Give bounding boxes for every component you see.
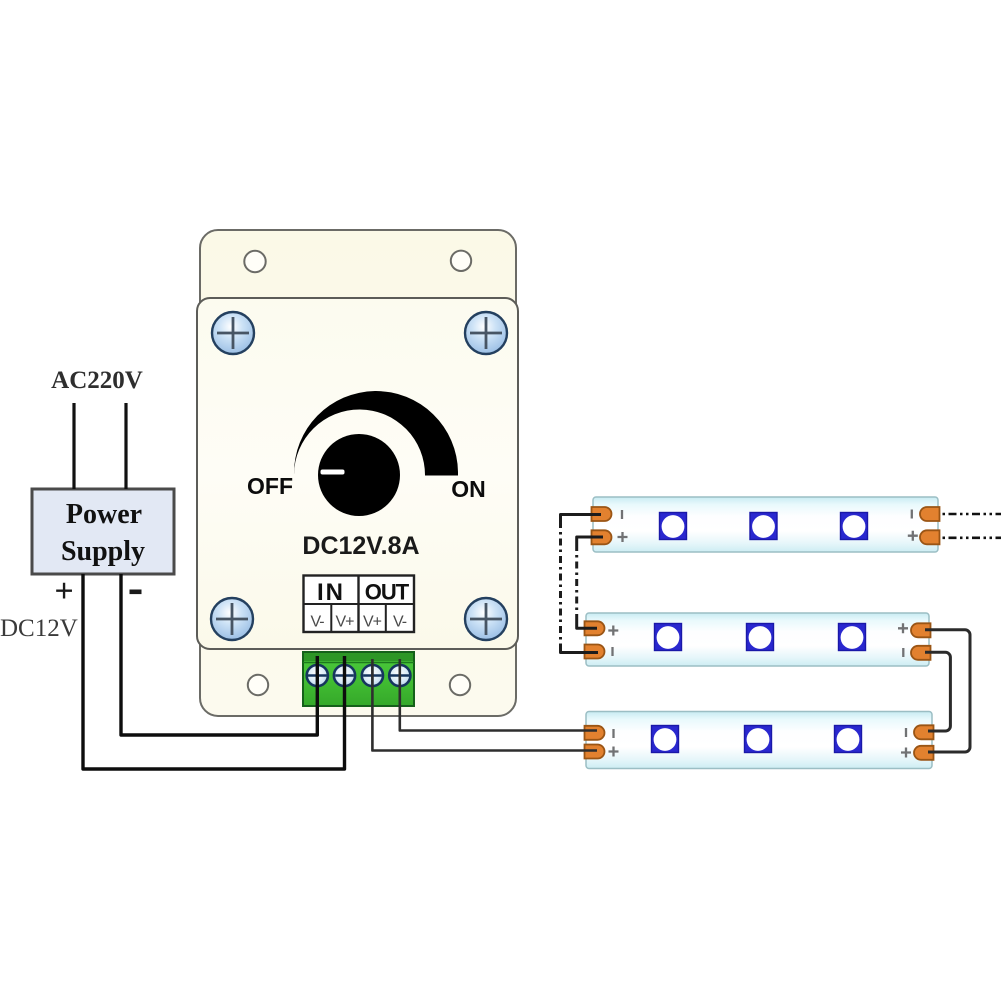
svg-text:AC220V: AC220V [51,367,143,394]
svg-text:OUT: OUT [365,580,410,605]
knob [318,434,400,516]
svg-text:+: + [54,573,73,610]
label ON [451,476,486,502]
green terminal block [303,652,414,706]
controller front panel [197,298,518,649]
terminal screw 4 (V- out) [389,665,410,686]
wire: strip1 left - solid stubs [561,515,602,522]
dash-dot continuation strip1 right bottom [943,536,1001,539]
strip1 polarity signs [618,510,918,543]
svg-text:Power: Power [66,499,142,530]
label DC12V [0,615,78,642]
svg-text:V-: V- [310,614,324,631]
strip1 LED 1 [660,513,687,540]
strip3 pad right top (-) [914,725,933,739]
svg-text:V+: V+ [335,614,354,631]
strip1 pad right top (-) [920,507,940,521]
label AC220V [51,367,143,394]
svg-text:IN: IN [317,579,345,606]
panel screw top-left [212,312,254,354]
terminal screw 2 (V+ in) [334,665,355,686]
strip3 pad left bottom (+) [585,745,605,759]
terminal screw 3 (V+ out) [362,665,383,686]
strip2 pad right top (+) [911,623,930,637]
label - (power supply minus) [130,590,142,595]
controller body [200,230,516,716]
strip2 LED 1 [655,624,682,651]
strip2 pad left top (+) [585,621,605,635]
LED strip 1 [593,497,938,552]
wire: strip1 left + solid stub [577,537,603,544]
panel screw bottom-right [465,598,507,640]
strip2 pad right bottom (-) [911,646,930,660]
label DC12V.8A [302,532,419,560]
strip1 pad right bottom (+) [920,530,940,544]
dash-dot continuation strip1 right top [943,513,1001,516]
power supply box [32,489,174,574]
strip2 polarity signs [608,623,908,657]
mounting hole bottom-left [248,675,268,695]
AC wire right [124,403,127,489]
svg-text:V+: V+ [363,614,382,631]
strip1 pad left bottom (+) [592,530,612,544]
strip3 LED 3 [835,726,862,753]
wire: OUT V- to strip3 left - [400,659,597,731]
wire: strip2 left - solid stubs [561,646,599,653]
wire: strip2 right + to strip3 right + [925,630,970,752]
strip1 LED 2 [750,513,777,540]
strip3 polarity signs [609,728,912,758]
wire: strip2 left + solid stub [577,621,597,628]
strip2 LED 2 [747,624,774,651]
strip3 LED 1 [652,726,679,753]
panel screw top-right [465,312,507,354]
wire: strip2 right - to strip3 right - [925,652,950,731]
wire: power supply - to IN V- [121,574,317,735]
wire: OUT V+ to strip3 left + [372,659,597,751]
svg-text:DC12V.8A: DC12V.8A [302,532,419,560]
strip3 pad right bottom (+) [914,746,933,760]
svg-text:Supply: Supply [61,536,145,567]
panel screw bottom-left [211,598,253,640]
mounting hole top-left [244,251,265,272]
strip1 pad left top (-) [592,507,612,521]
IN/OUT terminal table [304,576,415,633]
LED strip 3 [586,712,932,769]
svg-text:ON: ON [451,476,486,502]
wire: dash-dot link strip1- to strip2- [559,521,562,646]
strip3 LED 2 [745,726,772,753]
strip2 LED 3 [839,624,866,651]
svg-text:OFF: OFF [247,473,293,499]
label + (power supply plus) [54,573,73,610]
mounting hole bottom-right [450,675,470,695]
strip1 LED 3 [841,513,868,540]
wire: dash-dot link strip1+ to strip2+ [575,544,578,621]
strip3 pad left top (-) [585,726,605,740]
mounting hole top-right [451,251,471,271]
label OFF [247,473,293,499]
terminal screw 1 (V- in) [307,665,328,686]
svg-text:DC12V: DC12V [0,615,78,642]
wire: power supply + to IN V+ [83,574,345,769]
knob dial arc [294,391,458,475]
svg-text:V-: V- [393,614,407,631]
LED strip 2 [586,613,929,666]
AC wire left [72,403,75,489]
strip2 pad left bottom (-) [585,645,605,659]
